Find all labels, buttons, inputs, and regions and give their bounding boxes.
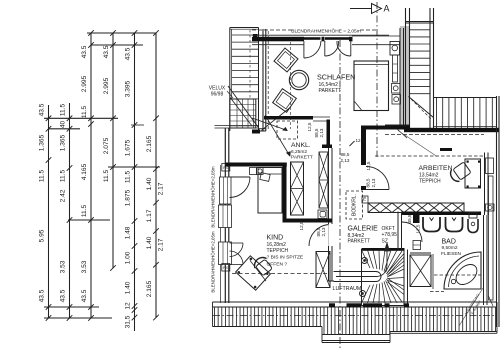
svg-text:2,13: 2,13 (341, 158, 350, 163)
svg-text:11.5: 11.5 (103, 169, 110, 182)
svg-text:BODKRL.: BODKRL. (352, 194, 358, 216)
svg-text:12,5: 12,5 (307, 122, 312, 131)
svg-text:9,50m2: 9,50m2 (442, 245, 458, 251)
svg-text:3.53: 3.53 (81, 260, 88, 273)
svg-text:LUFTRAUM: LUFTRAUM (333, 286, 362, 292)
svg-text:BLENDRAHMENHÖHE = 2,05m: BLENDRAHMENHÖHE = 2,05m (291, 27, 360, 34)
svg-text:11.5: 11.5 (60, 103, 67, 116)
svg-text:11.5: 11.5 (81, 204, 88, 217)
svg-text:3.395: 3.395 (125, 80, 132, 97)
svg-text:11.5: 11.5 (81, 105, 88, 118)
svg-text:PARKETT: PARKETT (319, 88, 342, 94)
svg-text:1.00: 1.00 (125, 251, 132, 264)
svg-text:40: 40 (60, 121, 67, 129)
svg-text:1.365: 1.365 (60, 134, 67, 151)
svg-text:BLENDRAHMENHÖHE=2,05m: BLENDRAHMENHÖHE=2,05m (211, 231, 216, 292)
svg-text:FLIESEN: FLIESEN (441, 251, 462, 257)
svg-text:11.5: 11.5 (125, 170, 132, 183)
svg-text:2.17: 2.17 (158, 182, 165, 195)
svg-text:75: 75 (362, 196, 367, 201)
svg-text:11.5: 11.5 (39, 169, 46, 182)
svg-text:43.5: 43.5 (60, 289, 67, 302)
svg-text:TEPPICH: TEPPICH (267, 248, 289, 254)
svg-text:35,5: 35,5 (407, 214, 412, 223)
svg-text:43.5: 43.5 (81, 45, 88, 58)
svg-text:4.165: 4.165 (81, 163, 88, 180)
svg-text:+78,95: +78,95 (382, 232, 398, 238)
svg-text:1.675: 1.675 (125, 139, 132, 156)
svg-text:A: A (383, 4, 389, 14)
svg-text:1.40: 1.40 (146, 236, 153, 249)
svg-text:43.5: 43.5 (103, 45, 110, 58)
svg-text:GALERIE: GALERIE (348, 226, 379, 233)
svg-text:2,13: 2,13 (319, 128, 324, 137)
svg-text:ANKL.: ANKL. (291, 142, 311, 149)
svg-text:1.365: 1.365 (39, 134, 46, 151)
svg-text:1.40: 1.40 (146, 177, 153, 190)
svg-text:2.075: 2.075 (103, 137, 110, 154)
svg-text:6,25m2: 6,25m2 (291, 149, 307, 155)
svg-text:12,5: 12,5 (366, 161, 371, 170)
svg-text:2.17: 2.17 (158, 238, 165, 251)
svg-text:12: 12 (125, 302, 132, 310)
svg-text:12,5: 12,5 (299, 221, 304, 230)
svg-text:1.875: 1.875 (125, 189, 132, 206)
svg-text:BLENDRAHMENHÖHE=2,05m: BLENDRAHMENHÖHE=2,05m (211, 166, 216, 227)
svg-text:43.5: 43.5 (81, 289, 88, 302)
svg-text:SCHLAFEN: SCHLAFEN (317, 73, 355, 82)
svg-text:2.995: 2.995 (103, 77, 110, 94)
svg-text:PARKETT: PARKETT (348, 239, 371, 245)
svg-text:1.17: 1.17 (146, 209, 153, 222)
svg-text:1.48: 1.48 (125, 226, 132, 239)
svg-text:5.95: 5.95 (39, 229, 46, 242)
svg-text:OKFT: OKFT (382, 226, 395, 232)
svg-text:2.165: 2.165 (146, 135, 153, 152)
svg-text:2,13: 2,13 (371, 178, 376, 187)
svg-text:88,5: 88,5 (341, 152, 350, 157)
svg-text:? BIS IN SPITZE: ? BIS IN SPITZE (267, 255, 304, 261)
svg-text:11.5: 11.5 (60, 169, 67, 182)
svg-text:2.995: 2.995 (81, 75, 88, 92)
svg-text:3.53: 3.53 (60, 260, 67, 273)
svg-text:1.40: 1.40 (125, 281, 132, 294)
svg-text:BAD: BAD (442, 239, 456, 246)
svg-text:31,5: 31,5 (125, 315, 132, 328)
svg-text:R0: R0 (223, 265, 229, 270)
svg-text:96/98: 96/98 (211, 92, 224, 98)
svg-text:OFFEN ?: OFFEN ? (267, 262, 288, 268)
svg-text:88,5: 88,5 (366, 178, 371, 187)
svg-text:2,13: 2,13 (321, 227, 326, 236)
svg-text:TEPPICH: TEPPICH (419, 179, 441, 185)
svg-text:2.42: 2.42 (60, 189, 67, 202)
svg-text:ARBEITEN: ARBEITEN (419, 165, 453, 172)
svg-text:PARKETT: PARKETT (291, 155, 313, 161)
svg-text:KIND: KIND (267, 235, 284, 242)
svg-text:43.5: 43.5 (39, 103, 46, 116)
svg-text:12,5: 12,5 (356, 138, 365, 143)
svg-text:43.5: 43.5 (39, 289, 46, 302)
svg-text:16,28m2: 16,28m2 (267, 242, 287, 248)
svg-text:2.165: 2.165 (146, 280, 153, 297)
svg-text:43.5: 43.5 (125, 47, 132, 60)
